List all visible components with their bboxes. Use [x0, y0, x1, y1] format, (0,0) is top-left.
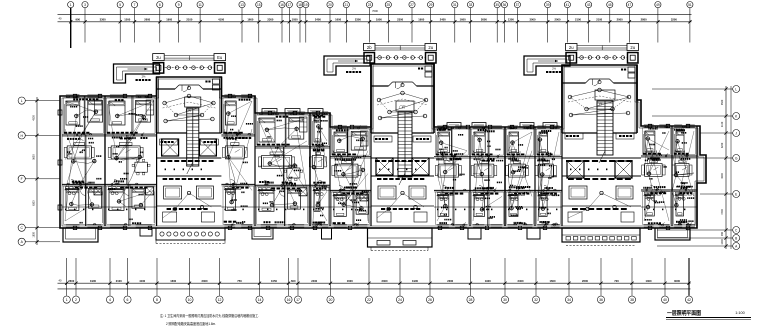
unit 1 entrance canopy [153, 54, 226, 74]
svg-text:1600: 1600 [347, 279, 353, 283]
svg-text:38: 38 [630, 298, 634, 302]
svg-text:2%: 2% [142, 75, 146, 79]
svg-text:42: 42 [687, 298, 691, 302]
svg-text:3200: 3200 [671, 17, 677, 21]
svg-text:4100: 4100 [139, 279, 145, 283]
outer wall inner line [62, 66, 704, 226]
svg-text:2%: 2% [552, 67, 556, 71]
svg-text:31: 31 [453, 3, 457, 7]
unit 3 entrance canopy [566, 44, 639, 64]
svg-text:34: 34 [567, 298, 571, 302]
svg-text:25: 25 [387, 3, 391, 7]
svg-text:1900: 1900 [166, 17, 172, 21]
svg-text:7: 7 [134, 3, 136, 7]
svg-text:1900: 1900 [376, 17, 382, 21]
apartment unit cell 6 [330, 125, 371, 227]
svg-text:1900: 1900 [90, 279, 96, 283]
unit 1 annex ramp [114, 64, 160, 83]
apartment unit cell 10 [535, 125, 562, 227]
bay x321 [322, 228, 332, 239]
apartment unit cell 7 [434, 125, 470, 227]
svg-text:20: 20 [329, 298, 333, 302]
drawing title [666, 309, 751, 320]
right dimension chain [652, 86, 740, 250]
svg-text:2100: 2100 [575, 17, 581, 21]
svg-text:3: 3 [84, 3, 86, 7]
svg-text:43: 43 [587, 3, 591, 7]
svg-text:3300: 3300 [100, 17, 106, 21]
svg-text:2100: 2100 [721, 121, 724, 127]
bay x140 [140, 228, 152, 236]
svg-text:36: 36 [503, 3, 507, 7]
svg-text:2300: 2300 [267, 17, 273, 21]
svg-text:2400: 2400 [518, 279, 524, 283]
svg-text:1: 1 [66, 298, 68, 302]
svg-text:5600: 5600 [33, 154, 36, 160]
apartment unit cell 1 [62, 94, 105, 227]
svg-text:1600: 1600 [170, 279, 176, 283]
svg-text:C: C [735, 228, 738, 232]
rooms under tower 1 [157, 158, 222, 222]
svg-text:18: 18 [298, 3, 302, 7]
svg-text:4100: 4100 [218, 17, 224, 21]
svg-text:41: 41 [566, 3, 570, 7]
svg-text:8: 8 [156, 298, 158, 302]
svg-text:L: L [735, 87, 737, 91]
top dimension band [58, 9, 692, 22]
bottom dimension band [58, 279, 691, 289]
bay x527 [527, 228, 540, 239]
wall pier bumps [58, 94, 690, 229]
svg-text:2u: 2u [569, 45, 574, 50]
svg-text:1600: 1600 [460, 17, 466, 21]
apartment unit cell 12 [672, 125, 697, 227]
svg-text:1900: 1900 [485, 279, 491, 283]
svg-text:2800: 2800 [641, 17, 647, 21]
entrance porch unit 3 [562, 228, 640, 246]
svg-text:1300: 1300 [646, 279, 652, 283]
party walls [105, 96, 697, 226]
apartment unit cell 3 [221, 94, 255, 227]
svg-text:16: 16 [280, 3, 284, 7]
svg-text:A: A [21, 240, 24, 244]
svg-text:4500: 4500 [33, 115, 36, 121]
svg-text:2000: 2000 [555, 17, 561, 21]
svg-text:49: 49 [656, 3, 660, 7]
apartment unit cell 5 [309, 112, 330, 227]
svg-text:39: 39 [546, 3, 550, 7]
unit 1 stair tower [157, 77, 222, 174]
svg-text:35: 35 [495, 3, 499, 7]
unit 3 stair tower [562, 65, 637, 178]
svg-text:2600: 2600 [582, 279, 588, 283]
svg-text:2400: 2400 [311, 279, 317, 283]
svg-text:11: 11 [198, 3, 202, 7]
svg-text:4600: 4600 [721, 173, 724, 179]
svg-text:注: 1 卫生间内采用一般照明灯具应加防水灯头,线路穿管沿墙: 注: 1 卫生间内采用一般照明灯具应加防水灯头,线路穿管沿墙内暗敷设施工. [160, 313, 259, 318]
svg-text:2: 2 [75, 298, 77, 302]
svg-text:22: 22 [367, 298, 371, 302]
svg-text:3200: 3200 [721, 142, 724, 148]
svg-text:20: 20 [328, 3, 332, 7]
balcony left end [63, 228, 98, 242]
svg-text:19: 19 [304, 3, 308, 7]
svg-text:12: 12 [218, 298, 222, 302]
svg-text:1600: 1600 [247, 17, 253, 21]
svg-text:6300: 6300 [33, 200, 36, 206]
bay windows above top wall [262, 109, 557, 128]
svg-text:1000: 1000 [721, 239, 724, 245]
svg-text:45: 45 [608, 3, 612, 7]
svg-text:C: C [20, 226, 23, 230]
svg-text:F: F [21, 177, 23, 181]
svg-text:2600: 2600 [68, 279, 74, 283]
svg-text:2%: 2% [352, 67, 356, 71]
svg-text:33: 33 [469, 3, 473, 7]
balcony right end [655, 228, 690, 240]
svg-text:7600: 7600 [372, 9, 378, 13]
apartment unit cell 9 [505, 125, 535, 227]
svg-text:720: 720 [614, 279, 619, 283]
svg-text:L: L [21, 99, 23, 103]
apartment unit cell 4 [255, 111, 310, 227]
svg-text:40: 40 [59, 17, 62, 21]
svg-text:A: A [735, 244, 738, 248]
svg-text:40: 40 [663, 298, 667, 302]
svg-text:E: E [735, 192, 737, 196]
svg-text:2300: 2300 [397, 17, 403, 21]
svg-text:10: 10 [188, 298, 192, 302]
svg-text:3500: 3500 [721, 99, 724, 105]
apartment unit cell 2 [105, 94, 157, 227]
svg-text:2300: 2300 [382, 279, 388, 283]
apartment unit cell 8 [470, 125, 505, 227]
svg-text:4: 4 [109, 298, 111, 302]
svg-text:24: 24 [398, 298, 402, 302]
svg-text:2100: 2100 [596, 17, 602, 21]
svg-text:B: B [735, 236, 737, 240]
svg-text:1: 1 [70, 3, 72, 7]
svg-text:2b: 2b [367, 45, 372, 50]
svg-text:32: 32 [534, 298, 538, 302]
svg-text:9: 9 [178, 3, 180, 7]
svg-text:1500: 1500 [124, 17, 130, 21]
svg-text:1050: 1050 [292, 17, 298, 21]
apartment unit cell 11 [641, 125, 672, 227]
svg-text:2300: 2300 [355, 17, 361, 21]
unit 2 stair tower [371, 64, 434, 185]
svg-text:K: K [735, 114, 738, 118]
svg-text:2u: 2u [630, 45, 635, 50]
svg-text:1900: 1900 [412, 279, 418, 283]
svg-text:17: 17 [288, 3, 292, 7]
svg-text:4700: 4700 [721, 209, 724, 215]
svg-text:G: G [735, 156, 738, 160]
svg-text:1:100: 1:100 [735, 311, 745, 315]
rooms under tower 2 [371, 158, 434, 222]
svg-text:2600: 2600 [481, 17, 487, 21]
svg-text:47: 47 [628, 3, 632, 7]
svg-text:23: 23 [368, 3, 372, 7]
rooms under tower 3 [562, 158, 641, 222]
svg-text:1300: 1300 [508, 17, 514, 21]
svg-text:2100: 2100 [186, 17, 192, 21]
svg-text:26: 26 [428, 298, 432, 302]
svg-text:2u: 2u [428, 45, 433, 50]
svg-text:21: 21 [345, 3, 349, 7]
svg-text:14: 14 [258, 298, 262, 302]
svg-text:600: 600 [291, 279, 296, 283]
svg-text:30: 30 [503, 298, 507, 302]
unit 3 annex ramp [524, 56, 570, 75]
svg-text:13: 13 [240, 3, 244, 7]
svg-text:2400: 2400 [440, 17, 446, 21]
entrance porch unit 2 [368, 228, 433, 251]
svg-text:2300: 2300 [447, 279, 453, 283]
svg-text:8: 8 [159, 3, 161, 7]
svg-text:一层照明平面图: 一层照明平面图 [667, 309, 702, 317]
svg-text:2100: 2100 [116, 279, 122, 283]
svg-text:2000: 2000 [617, 17, 623, 21]
svg-text:3000: 3000 [674, 279, 680, 283]
svg-text:16: 16 [287, 298, 291, 302]
svg-text:900: 900 [721, 231, 724, 236]
svg-text:3000: 3000 [530, 17, 536, 21]
svg-text:40: 40 [59, 279, 62, 283]
svg-text:27: 27 [410, 3, 414, 7]
svg-text:Eu: Eu [217, 55, 223, 60]
svg-text:2300: 2300 [202, 279, 208, 283]
svg-text:门厅: 门厅 [399, 104, 405, 109]
svg-text:5: 5 [119, 3, 121, 7]
balcony x252 [252, 228, 273, 239]
building outer wall [60, 64, 706, 228]
svg-text:1600: 1600 [550, 279, 556, 283]
svg-text:1900: 1900 [418, 17, 424, 21]
svg-text:17: 17 [296, 298, 300, 302]
svg-text:1800: 1800 [33, 231, 36, 237]
entrance porch unit 1 [156, 228, 225, 244]
unit 2 annex ramp [324, 56, 370, 75]
bay x468 [468, 228, 481, 239]
svg-text:51: 51 [688, 3, 692, 7]
unit 2 entrance canopy [364, 44, 437, 64]
svg-text:36: 36 [599, 298, 603, 302]
svg-text:2 照明配电箱安装高度底边距地1.8m.: 2 照明配电箱安装高度底边距地1.8m. [166, 321, 216, 326]
bottom grid lines and bubbles [63, 258, 693, 303]
svg-text:2600: 2600 [144, 17, 150, 21]
svg-text:J: J [735, 131, 737, 135]
left dimension chain [18, 97, 60, 245]
svg-text:1600: 1600 [335, 17, 341, 21]
svg-text:6: 6 [127, 298, 129, 302]
top grid lines and bubbles [68, 2, 693, 49]
svg-text:15: 15 [257, 3, 261, 7]
svg-text:2400: 2400 [315, 17, 321, 21]
svg-text:37: 37 [516, 3, 520, 7]
svg-text:29: 29 [429, 3, 433, 7]
svg-text:2u: 2u [156, 55, 161, 60]
notes text [160, 313, 259, 326]
svg-text:28: 28 [469, 298, 473, 302]
svg-text:H: H [20, 134, 23, 138]
svg-text:900: 900 [76, 17, 81, 21]
svg-text:1050: 1050 [271, 279, 277, 283]
svg-text:750: 750 [237, 279, 242, 283]
